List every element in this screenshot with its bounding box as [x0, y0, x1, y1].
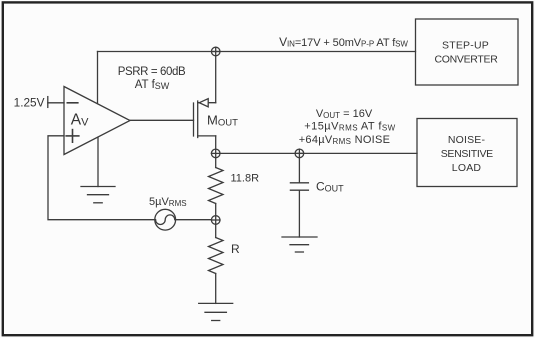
svg-text:PSRR = 60dB: PSRR = 60dB — [118, 66, 186, 78]
source 1.25V tick — [47, 97, 49, 108]
resistor R1 11.8R — [209, 158, 224, 216]
ground R bottom — [199, 303, 233, 320]
svg-text:R: R — [231, 242, 240, 256]
node feedback junction — [211, 216, 220, 225]
svg-text:SENSITIVE: SENSITIVE — [441, 148, 493, 160]
wire op-amp V+ supply — [97, 52, 99, 104]
wire noninverting input to summing source — [48, 136, 155, 220]
svg-text:STEP-UP: STEP-UP — [442, 40, 489, 52]
node output junction A — [211, 149, 220, 158]
capacitor C1 COUT — [290, 158, 308, 237]
wire op-amp output to gate — [130, 119, 194, 121]
svg-text:11.8R: 11.8R — [231, 173, 260, 185]
svg-text:NOISE-: NOISE- — [448, 134, 486, 146]
svg-text:VIN=17V + 50mVP-P AT fSW: VIN=17V + 50mVP-P AT fSW — [279, 35, 408, 49]
op-amp ground wire — [97, 137, 99, 186]
ground op-amp — [81, 187, 115, 203]
op-amp U1 Av — [64, 87, 130, 155]
box NOISE-SENSITIVE LOAD — [417, 119, 517, 187]
wire output rail VOUT — [220, 152, 417, 154]
transistor Q1 MOUT — [194, 56, 216, 149]
node top junction — [211, 47, 220, 56]
svg-text:LOAD: LOAD — [452, 162, 482, 174]
wire sine to junction — [176, 219, 212, 221]
source V1 5uVrms sine — [155, 209, 176, 230]
wire top rail VIN — [98, 51, 416, 53]
ground COUT — [282, 237, 317, 252]
node COUT junction — [295, 149, 304, 158]
svg-text:1.25V: 1.25V — [14, 95, 45, 109]
svg-text:CONVERTER: CONVERTER — [434, 54, 498, 66]
box STEP-UP CONVERTER — [416, 19, 519, 85]
resistor R2 R — [209, 224, 224, 303]
svg-text:AT fSW: AT fSW — [135, 79, 170, 91]
wire inverting input lead — [48, 102, 64, 104]
